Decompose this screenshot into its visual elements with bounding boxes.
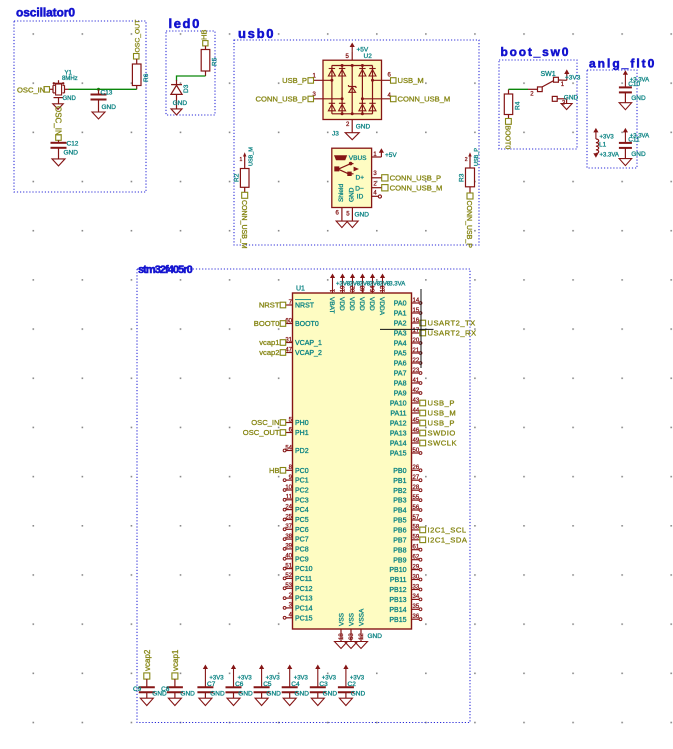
svg-text:GND: GND	[64, 150, 79, 157]
svg-text:GND: GND	[356, 124, 371, 131]
U1 pin 28 PB2	[412, 489, 420, 491]
U1 pin 61 PB8	[412, 549, 420, 551]
U2 rail corners	[331, 65, 333, 68]
U1 pin 49 PA14 hier label SWCLK	[412, 442, 420, 444]
J3 pin 6 shield stub	[341, 208, 343, 222]
capacitor C8	[174, 679, 176, 687]
svg-text:L1: L1	[599, 142, 607, 149]
svg-text:NRST: NRST	[259, 301, 280, 310]
U2 pin 2 GND	[351, 120, 353, 133]
svg-text:C8: C8	[161, 686, 170, 693]
ground below C8	[168, 698, 181, 705]
svg-text:PC10: PC10	[295, 566, 313, 573]
svg-text:USB_P: USB_P	[474, 148, 480, 166]
editor cursor crosshair	[420, 289, 422, 368]
svg-text:GND: GND	[180, 691, 195, 698]
power +3V3 at C6	[231, 665, 236, 670]
U1 pin 17 PA3 hier label USART2_RX	[412, 332, 420, 334]
U1 pin 60 BOOT0 hier label BOOT0	[286, 323, 293, 325]
svg-text:PA8: PA8	[394, 381, 407, 388]
svg-text:oscillator0: oscillator0	[16, 6, 75, 20]
U1 pin 24 PC4	[286, 509, 293, 511]
svg-text:U2: U2	[364, 53, 373, 60]
svg-text:C13: C13	[101, 89, 113, 96]
ground below C5	[255, 698, 268, 705]
junction at C13	[97, 88, 100, 91]
svg-text:PC1: PC1	[295, 478, 309, 485]
ground below C9	[140, 698, 153, 705]
U1 pin 35 PB14	[412, 608, 420, 610]
svg-text:GND: GND	[631, 95, 646, 102]
U2 junction dots	[341, 64, 344, 67]
power +3.3VA at C11	[623, 128, 628, 132]
power +5V at U2	[350, 43, 355, 48]
U1 pin 56 PB4	[412, 509, 420, 511]
J3 pin 5 gnd stub	[351, 208, 353, 222]
svg-text:ID: ID	[357, 193, 364, 200]
svg-text:PC4: PC4	[295, 507, 309, 514]
svg-text:PC9: PC9	[295, 556, 309, 563]
svg-text:PA3: PA3	[394, 331, 407, 338]
power +3V3 at C4	[287, 665, 292, 670]
svg-text:1: 1	[240, 157, 243, 163]
U1 pin 37 PC6	[286, 528, 293, 530]
U1 pin 4 PC15	[286, 617, 293, 619]
svg-text:anlg_flt0: anlg_flt0	[589, 56, 656, 70]
crystal Y1	[50, 88, 53, 90]
U1 pin 25 PC5	[286, 519, 293, 521]
svg-text:OSC_OUT: OSC_OUT	[135, 20, 142, 53]
U1 pin 55 PB3	[412, 499, 420, 501]
svg-text:63: 63	[349, 633, 355, 640]
svg-text:PC11: PC11	[295, 576, 312, 583]
svg-text:D−: D−	[355, 185, 364, 192]
U2 top rail	[332, 65, 371, 67]
svg-text:PA1: PA1	[394, 311, 407, 318]
svg-text:R5: R5	[212, 57, 219, 66]
svg-text:45: 45	[413, 418, 420, 424]
svg-text:PA5: PA5	[394, 351, 407, 358]
svg-text:PA4: PA4	[394, 341, 407, 348]
svg-text:2: 2	[465, 157, 468, 163]
power +3.3VA below L1	[593, 153, 598, 158]
svg-text:PB13: PB13	[389, 597, 406, 604]
U1 pin 53 PC12	[286, 587, 293, 589]
svg-text:OSC_IN: OSC_IN	[54, 106, 63, 136]
power +3V3 at C3	[315, 665, 320, 670]
svg-text:VCAP_2: VCAP_2	[295, 350, 322, 357]
sheet oscillator0 border	[14, 21, 146, 192]
svg-text:SWDIO: SWDIO	[428, 429, 456, 438]
U1 pin 5 PH0 hier label OSC_IN	[286, 422, 293, 424]
svg-text:PB0: PB0	[393, 468, 406, 475]
svg-text:PA13: PA13	[390, 431, 407, 438]
U1 pin 6 PH1 hier label OSC_OUT	[286, 432, 293, 434]
U1 pin 27 PB1	[412, 479, 420, 481]
svg-text:PC15: PC15	[295, 615, 313, 622]
wire R5 to D3	[177, 76, 206, 81]
svg-text:47: 47	[285, 347, 292, 353]
U1 pin 31 VCAP_1 hier label vcap1	[286, 342, 293, 344]
mcu U1 body	[293, 293, 412, 629]
U1 pin 2 PC13	[286, 597, 293, 599]
U1 pin 7 NRST hier label NRST	[286, 304, 293, 306]
svg-text:46: 46	[413, 428, 420, 434]
sheet boot_sw0 border	[499, 60, 577, 149]
svg-text:PA12: PA12	[390, 421, 407, 428]
ground below U1 pin 63	[345, 642, 358, 649]
svg-text:SWCLK: SWCLK	[428, 439, 458, 448]
svg-text:boot_sw0: boot_sw0	[501, 45, 571, 59]
ground below D3	[171, 109, 182, 115]
U1 bottom pin VSS 18	[340, 629, 342, 642]
svg-text:GND: GND	[295, 691, 310, 698]
U1 pin 34 PB13	[412, 598, 420, 600]
svg-text:BOOT0: BOOT0	[504, 126, 511, 150]
svg-text:VSS: VSS	[339, 612, 346, 626]
svg-text:GND: GND	[368, 633, 383, 640]
sheet stm32f405r0 border	[137, 269, 470, 723]
capacitor C13	[98, 89, 100, 94]
U1 pin 15 PA1	[412, 312, 420, 314]
U1 pin 43 PA10 hier label USB_P	[412, 402, 420, 404]
svg-text:PB2: PB2	[393, 488, 406, 495]
U1 top pin VBAT 1 with +3V3 arrow	[330, 274, 335, 279]
svg-text:D3: D3	[183, 84, 190, 93]
svg-text:PB1: PB1	[393, 478, 406, 485]
svg-text:VDDA: VDDA	[378, 297, 385, 316]
power +3V3 at C5	[259, 665, 264, 670]
svg-text:PB7: PB7	[393, 537, 406, 544]
power +3.3VA at C10	[623, 70, 628, 75]
U1 pin 22 PA6	[412, 362, 420, 364]
U1 pin 39 PC8	[286, 548, 293, 550]
U1 bottom pin VSS 63	[350, 629, 352, 642]
svg-text:I2C1_SDA: I2C1_SDA	[428, 536, 468, 545]
svg-text:PB14: PB14	[389, 607, 406, 614]
svg-text:GND: GND	[210, 691, 225, 698]
svg-text:49: 49	[413, 438, 420, 444]
SW1 lower throw to GND	[552, 96, 557, 101]
U1 pin 20 PA4	[412, 342, 420, 344]
ground below C7	[199, 698, 212, 705]
wire crystal to R6	[69, 88, 137, 90]
svg-text:PB12: PB12	[389, 587, 406, 594]
svg-text:PC6: PC6	[295, 527, 309, 534]
resistor R6	[136, 59, 138, 64]
svg-text:VDD: VDD	[348, 297, 355, 311]
svg-text:CONN_USB_P: CONN_USB_P	[465, 201, 472, 249]
U2 diode chain	[331, 66, 333, 114]
U2 zener center	[351, 66, 353, 114]
svg-text:GND: GND	[351, 691, 366, 698]
svg-text:GND: GND	[266, 691, 281, 698]
sheet led0 border	[166, 31, 215, 115]
ground below Y1	[53, 104, 64, 110]
U1 top pin VDD 64 with +3V3 arrow	[370, 274, 375, 279]
U2 diode chain	[372, 66, 374, 114]
U1 pin 29 PB10	[412, 569, 420, 571]
svg-text:Shield: Shield	[338, 184, 345, 202]
svg-text:44: 44	[413, 408, 420, 414]
svg-text:PC3: PC3	[295, 497, 309, 504]
svg-text:GND: GND	[63, 96, 77, 102]
power +3V3 at C7	[203, 665, 208, 670]
resistor R2 with USB_M net	[243, 152, 246, 156]
svg-text:PC5: PC5	[295, 517, 309, 524]
svg-text:R6: R6	[143, 73, 150, 82]
led D3	[176, 80, 178, 85]
U1 top pin VDD 48 with +3V3 arrow	[360, 274, 365, 279]
U1 top pin VDD 32 with +3V3 arrow	[350, 274, 355, 279]
svg-text:PA15: PA15	[390, 451, 407, 458]
svg-text:GND: GND	[102, 104, 117, 111]
svg-text:CONN_USB_P: CONN_USB_P	[256, 95, 307, 104]
ground below C10	[619, 103, 632, 110]
svg-text:PA6: PA6	[394, 361, 407, 368]
svg-text:18: 18	[339, 633, 345, 640]
U1 pin 45 PA12 hier label USB_P	[412, 422, 420, 424]
U1 pin 44 PA11 hier label USB_M	[412, 412, 420, 414]
svg-text:PB6: PB6	[393, 528, 406, 535]
U2 pin 4 CONN_USB_M	[362, 98, 390, 100]
U1 top pin VDDA 13 with +3V3 arrow	[380, 274, 385, 279]
hier label BOOT0 vertical	[506, 119, 512, 125]
ground below J3 left	[336, 221, 348, 228]
svg-text:+3V3: +3V3	[565, 75, 581, 82]
svg-text:60: 60	[285, 318, 292, 324]
U1 pin 23 PA7	[412, 372, 420, 374]
svg-text:USB_P: USB_P	[282, 76, 307, 85]
wire R4 to SW1	[509, 88, 529, 90]
svg-text:PA9: PA9	[394, 391, 407, 398]
U1 pin 54 PD2	[286, 450, 293, 452]
J3 usb trident icon	[334, 166, 339, 171]
U2 pin 1 USB_P	[314, 79, 332, 81]
svg-text:+3V3: +3V3	[600, 135, 615, 141]
U1 pin 58 PB6 hier label I2C1_SCL	[412, 529, 420, 531]
U1 pin 11 PC3	[286, 499, 293, 501]
sheet usb0 border	[234, 40, 479, 245]
svg-text:stm32f405r0: stm32f405r0	[138, 264, 193, 276]
inductor L1	[596, 139, 599, 153]
svg-text:VDD: VDD	[368, 297, 375, 311]
U1 pin 16 PA2 hier label USART2_TX	[412, 322, 420, 324]
svg-text:GND: GND	[564, 94, 579, 101]
svg-text:PB5: PB5	[393, 518, 406, 525]
U1 pin 10 PC2	[286, 489, 293, 491]
svg-text:NRST: NRST	[295, 303, 315, 310]
svg-text:12: 12	[359, 633, 365, 640]
svg-text:CONN_USB_M: CONN_USB_M	[240, 200, 247, 249]
ground at SW1	[561, 104, 572, 110]
svg-text:PA14: PA14	[390, 441, 407, 448]
svg-text:usb0: usb0	[238, 26, 275, 41]
svg-text:+3.3VA: +3.3VA	[386, 282, 405, 288]
svg-text:PB11: PB11	[390, 577, 407, 584]
svg-text:D+: D+	[356, 175, 365, 182]
svg-text:USB_M: USB_M	[428, 409, 457, 418]
svg-text:BOOT0: BOOT0	[254, 319, 280, 328]
U2 diode chain	[361, 66, 363, 114]
svg-text:PC0: PC0	[295, 468, 309, 475]
ground below C4	[283, 698, 296, 705]
U1 pin 14 PA0	[412, 302, 420, 304]
svg-text:PB3: PB3	[393, 498, 406, 505]
svg-text:GND: GND	[238, 691, 253, 698]
svg-text:+3.3VA: +3.3VA	[600, 153, 619, 159]
svg-text:VSSA: VSSA	[359, 608, 366, 626]
power +3V3 at C2	[343, 665, 348, 670]
capacitor C12	[58, 140, 60, 142]
svg-text:vcap1: vcap1	[259, 338, 279, 347]
svg-text:PB8: PB8	[393, 547, 406, 554]
svg-text:USART2_TX: USART2_TX	[428, 319, 476, 328]
svg-text:VBUS: VBUS	[349, 155, 367, 162]
U1 bottom pin VSSA 12	[360, 629, 362, 642]
resistor R3 with USB_P net	[468, 152, 471, 156]
U1 pin 51 PC10	[286, 568, 293, 570]
svg-text:VBAT: VBAT	[328, 297, 335, 314]
U1 top pin VDD 19 with +3V3 arrow	[340, 274, 345, 279]
svg-text:led0: led0	[169, 16, 201, 31]
svg-text:CONN_USB_M: CONN_USB_M	[390, 184, 443, 193]
hier label CONN_USB_P vertical	[467, 193, 473, 199]
U2 bottom rail	[332, 113, 371, 115]
svg-text:VDD: VDD	[338, 297, 345, 311]
svg-text:R2: R2	[233, 173, 240, 182]
resistor R4	[504, 94, 512, 115]
U2 pin 3 CONN_USB_P	[314, 98, 342, 100]
svg-text:PC12: PC12	[295, 586, 313, 593]
svg-text:USART2_RX: USART2_RX	[428, 329, 477, 338]
U1 pin 40 PC9	[286, 558, 293, 560]
svg-text:vcap1: vcap1	[171, 649, 180, 671]
svg-text:PA11: PA11	[390, 411, 406, 418]
ground below C6	[227, 698, 240, 705]
svg-text:U1: U1	[296, 286, 305, 293]
svg-text:GND: GND	[349, 187, 356, 202]
ground below U2	[345, 133, 359, 140]
svg-text:PA7: PA7	[394, 371, 407, 378]
svg-text:BOOT0: BOOT0	[295, 321, 319, 328]
U1 pin 52 PC11	[286, 577, 293, 579]
svg-text:GND: GND	[355, 211, 370, 218]
svg-text:VDD: VDD	[358, 297, 365, 311]
svg-text:USB_P: USB_P	[428, 419, 455, 428]
svg-text:PC7: PC7	[295, 537, 309, 544]
svg-text:11: 11	[286, 495, 293, 501]
svg-text:PA2: PA2	[394, 321, 407, 328]
svg-text:58: 58	[413, 525, 420, 531]
svg-text:GND: GND	[173, 100, 188, 107]
U1 pin 21 PA5	[412, 352, 420, 354]
svg-text:vcap2: vcap2	[143, 649, 152, 671]
U1 pin 62 PB9	[412, 559, 420, 561]
svg-text:PB4: PB4	[393, 508, 406, 515]
U1 pin 38 PC7	[286, 538, 293, 540]
svg-text:59: 59	[413, 535, 420, 541]
svg-text:J3: J3	[332, 130, 339, 137]
ground below U1 pin 12	[355, 642, 368, 649]
svg-text:R3: R3	[459, 173, 466, 182]
svg-text:OSC_OUT: OSC_OUT	[243, 428, 280, 437]
U1 pin 9 PC1	[286, 479, 293, 481]
svg-text:CONN_USB_P: CONN_USB_P	[390, 174, 441, 183]
svg-text:OSC_IN: OSC_IN	[17, 85, 45, 94]
hier label CONN_USB_M vertical	[242, 192, 248, 198]
svg-text:HB: HB	[200, 30, 209, 40]
svg-text:I2C1_SCL: I2C1_SCL	[428, 526, 467, 535]
svg-text:PC8: PC8	[295, 547, 309, 554]
svg-text:8MHz: 8MHz	[62, 76, 78, 82]
U1 pin 26 PB0	[412, 469, 420, 471]
svg-text:USB_M: USB_M	[249, 147, 255, 166]
svg-text:USB_M: USB_M	[398, 76, 424, 85]
U1 pin 8 PC0 hier label HB	[286, 469, 293, 471]
power +3V3 at L1	[593, 128, 598, 132]
capacitor C9	[146, 679, 148, 687]
svg-text:C12: C12	[67, 141, 79, 148]
ground below C13	[92, 112, 105, 119]
ground below U1 pin 18	[335, 642, 348, 649]
U1 pin 41 PA8	[412, 382, 420, 384]
svg-text:GND: GND	[631, 151, 646, 158]
svg-text:OSC_IN: OSC_IN	[251, 418, 279, 427]
svg-text:VSS: VSS	[349, 612, 356, 626]
U1 pin 46 PA13 hier label SWDIO	[412, 432, 420, 434]
U1 pin 57 PB5	[412, 519, 420, 521]
svg-text:PC14: PC14	[295, 606, 313, 613]
sheet anlg_flt0 border	[587, 70, 637, 168]
svg-text:PD2: PD2	[295, 448, 309, 455]
svg-text:VCAP_1: VCAP_1	[295, 340, 322, 347]
U1 pin 3 PC14	[286, 607, 293, 609]
U2 diode chain	[341, 66, 343, 114]
U1 pin 36 PB15	[412, 618, 420, 620]
svg-text:vcap2: vcap2	[259, 348, 279, 357]
svg-text:PC2: PC2	[295, 488, 309, 495]
svg-text:CONN_USB_M: CONN_USB_M	[398, 95, 451, 104]
ground below C2	[339, 698, 352, 705]
svg-text:PB10: PB10	[389, 567, 406, 574]
svg-text:R4: R4	[515, 101, 522, 110]
svg-text:+5V: +5V	[385, 152, 397, 159]
svg-text:GND: GND	[323, 691, 338, 698]
svg-text:17: 17	[413, 328, 420, 334]
ground below C3	[311, 698, 324, 705]
resistor R5	[205, 46, 207, 50]
svg-text:31: 31	[285, 337, 292, 343]
U1 pin 47 VCAP_2 hier label vcap2	[286, 352, 293, 354]
svg-text:PA10: PA10	[390, 401, 407, 408]
svg-text:C9: C9	[133, 686, 142, 693]
svg-text:16: 16	[413, 318, 420, 324]
U1 pin 42 PA9	[412, 392, 420, 394]
svg-text:HB: HB	[269, 466, 280, 475]
ground below C11	[619, 159, 632, 166]
U1 pin 30 PB11	[412, 579, 420, 581]
U1 pin 50 PA15	[412, 452, 420, 454]
svg-text:PB15: PB15	[389, 617, 406, 624]
U1 pin 33 PB12	[412, 589, 420, 591]
svg-text:PB9: PB9	[393, 557, 406, 564]
svg-text:USB_P: USB_P	[428, 399, 455, 408]
U2 pin 6 USB_M	[373, 79, 391, 81]
svg-text:PA0: PA0	[394, 301, 407, 308]
svg-text:PH0: PH0	[295, 420, 309, 427]
svg-text:PC13: PC13	[295, 596, 313, 603]
